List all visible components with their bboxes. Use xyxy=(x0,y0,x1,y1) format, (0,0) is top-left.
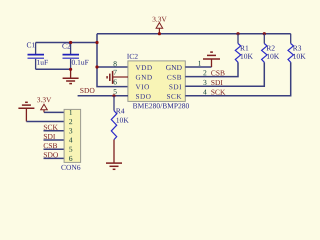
pin name VDD xyxy=(136,65,152,70)
ground below C2 xyxy=(63,69,79,83)
junction dot cap bus at vertical xyxy=(95,41,98,44)
wire CON6 pin5 CSB xyxy=(44,148,65,150)
wire pin3 SDI to R2 xyxy=(185,62,264,86)
wire CON6 pin3 SCK xyxy=(44,130,65,132)
pin number 4 CON6 xyxy=(69,138,73,143)
ground sideways at pins 7-6 xyxy=(107,71,113,84)
pin number 2 xyxy=(203,70,206,75)
pin number 5 CON6 xyxy=(69,147,72,152)
wire CON6 pin1 to 3.3V xyxy=(44,111,64,113)
junction dot C2 bottom ground xyxy=(69,68,72,71)
wire SDO stub to pin5 xyxy=(78,95,128,97)
pin name CSB xyxy=(167,75,181,80)
pin name SCK xyxy=(167,94,181,99)
net label SDO at CON6 xyxy=(44,152,58,157)
ground above pin1 (inverted) xyxy=(203,52,220,67)
resistor R3 xyxy=(288,34,306,63)
junction dot rail at R2 xyxy=(263,32,266,35)
wire pin4 SCK to R3 xyxy=(185,62,290,96)
net label SCK xyxy=(211,90,225,95)
net label CSB xyxy=(211,70,225,75)
resistor R4 xyxy=(111,96,128,140)
junction dot rail at R1 xyxy=(236,32,239,35)
pin number 6 xyxy=(114,79,117,84)
resistor R2 xyxy=(262,34,280,63)
pin number 4 xyxy=(203,90,207,95)
pin name SDI xyxy=(169,84,181,89)
wire CON6 pin6 SDO xyxy=(44,157,65,159)
pin number 7 xyxy=(114,70,117,75)
wire capacitor top bus C1-C2 to vertical xyxy=(36,42,97,44)
net label SDO at IC xyxy=(80,88,94,93)
wire capacitor bottom bus C1-C2 xyxy=(36,68,71,70)
power 3.3V at CON6 pin1 xyxy=(37,97,51,112)
pin number 1 xyxy=(198,61,201,66)
capacitor C1 xyxy=(27,42,48,69)
ground below R4 xyxy=(106,140,122,170)
wire CON6 pin4 SDI xyxy=(44,139,65,141)
pin number 1 CON6 xyxy=(69,110,72,115)
power 3.3V on top rail xyxy=(153,17,167,34)
junction dot vertical at pin8 xyxy=(95,65,98,68)
ground at CON6 pin2 (inverted) xyxy=(18,102,34,121)
wire CON6 pin2 to ground xyxy=(26,121,64,123)
net label SDI xyxy=(211,80,222,85)
pin number 6 CON6 xyxy=(69,156,72,161)
pin number 2 CON6 xyxy=(69,119,72,124)
pin number 3 xyxy=(203,80,206,85)
net label SDI at CON6 xyxy=(44,134,55,139)
pin number 5 xyxy=(114,89,117,94)
capacitor C2 xyxy=(62,43,88,70)
net label SCK at CON6 xyxy=(44,125,58,130)
resistor R1 xyxy=(235,34,253,63)
wire pin1 GND to ground xyxy=(185,66,211,68)
junction dot R4 top xyxy=(112,94,115,97)
pin name SDO xyxy=(136,94,151,99)
net label CSB at CON6 xyxy=(44,143,58,148)
pin7 GND stub to sideways ground xyxy=(113,76,129,78)
pin number 3 CON6 xyxy=(69,128,72,133)
pin name GND left xyxy=(136,75,152,80)
IC IC2 BME280/BMP280 xyxy=(127,54,189,109)
junction dot rail at 3.3V xyxy=(158,32,161,35)
wire left vertical from rail to VIO pin6 xyxy=(97,34,128,87)
wire pin2 CSB to R1 xyxy=(185,62,238,76)
wire pin8 VDD from vertical to IC xyxy=(97,66,128,68)
junction dot cap bus at C2 top xyxy=(69,41,72,44)
wire 3.3V top rail xyxy=(97,33,291,35)
pin name VIO xyxy=(136,84,149,89)
pin number 8 xyxy=(113,61,116,66)
connector CON6 body xyxy=(61,109,80,169)
pin name GND right xyxy=(166,65,182,70)
